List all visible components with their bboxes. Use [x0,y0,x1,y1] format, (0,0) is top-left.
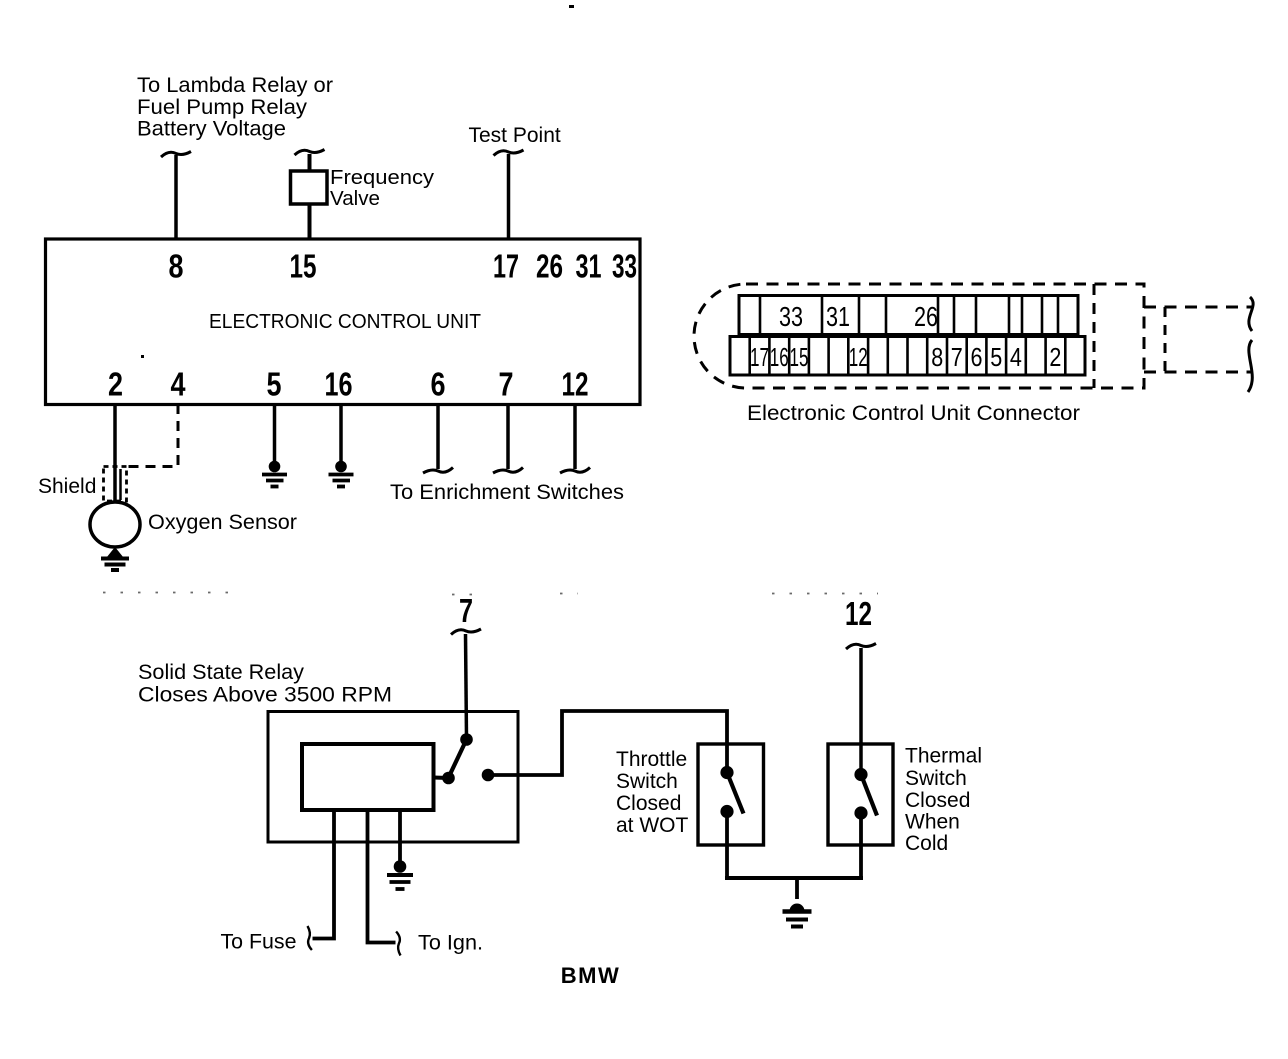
ground oxygen sensor [101,547,129,570]
svg-text:Oxygen Sensor: Oxygen Sensor [148,511,297,534]
svg-text:33: 33 [779,301,803,332]
svg-text:To Lambda Relay or: To Lambda Relay or [137,74,333,97]
relay switch stub [434,776,449,781]
svg-text:31: 31 [576,248,602,285]
ground bottom [783,904,812,927]
wire node 7 to relay switch [466,634,467,738]
junction dot relay output contact [482,769,495,782]
junction dot relay left contact [442,772,455,785]
svg-text:Closed: Closed [616,792,681,815]
label Thermal Switch Closed When Cold [905,745,982,856]
wire pin 7 [506,404,510,469]
wire relay coil to ignition [368,810,396,943]
svg-text:Thermal: Thermal [905,745,982,768]
wire frequency valve top [308,154,312,171]
svg-text:at WOT: at WOT [616,814,689,837]
svg-text:16: 16 [325,366,353,403]
frequency valve FV1 [291,171,328,204]
svg-text:16: 16 [770,342,789,372]
shield inner conductor [119,469,122,500]
speck top [569,5,574,8]
svg-text:15: 15 [790,342,809,372]
connector curl to fuse [308,926,312,950]
ground pin 16 [329,461,354,487]
throttle switch S1 box [698,744,764,845]
connector curl pin 7 [493,468,523,474]
svg-text:2: 2 [108,366,123,403]
connector curl pin 12 [560,468,590,474]
wire ground bus [725,876,863,880]
svg-text:4: 4 [171,366,187,403]
ground pin 5 [262,461,287,487]
svg-text:Test Point: Test Point [469,124,561,147]
svg-text:ELECTRONIC CONTROL UNIT: ELECTRONIC CONTROL UNIT [209,311,481,333]
label Solid State Relay Closes Above 3500 RPM [138,661,392,707]
svg-text:Shield: Shield [38,475,96,498]
connector curl pin 15 [295,150,325,156]
svg-text:When: When [905,811,960,834]
cable dashed divider [1164,307,1167,372]
throttle switch bottom contact [720,805,733,818]
svg-text:6: 6 [971,342,983,372]
wire relay output to throttle switch [493,711,727,775]
svg-text:Frequency: Frequency [330,167,434,189]
svg-text:33: 33 [612,248,637,285]
connector top pin row [739,296,1078,335]
svg-text:7: 7 [499,366,514,403]
wire thermal switch to ground bus [859,813,863,878]
svg-text:7: 7 [459,592,473,629]
ground relay [387,860,413,889]
svg-text:6: 6 [431,366,446,403]
faint dotted separator [103,593,878,595]
connector curl pin 6 [423,468,453,474]
wire pin 8 to battery voltage [174,155,178,239]
relay coil inner box [302,744,434,810]
svg-text:To Fuse: To Fuse [221,931,297,954]
cable break squiggle lower [1248,340,1252,392]
svg-text:Cold: Cold [905,832,948,855]
svg-text:8: 8 [169,248,184,285]
solid state relay K1 outer box [268,712,518,843]
svg-text:Throttle: Throttle [616,748,687,771]
relay switch blade [449,740,467,778]
label To Lambda Relay / Fuel Pump Relay / Battery Voltage [137,74,333,141]
svg-text:Battery Voltage: Battery Voltage [137,118,286,141]
speck left of pin 4 [141,355,144,358]
svg-text:Closed: Closed [905,789,970,812]
ECU connector inner dashed divider [1093,284,1096,388]
svg-text:Switch: Switch [616,770,678,793]
svg-text:4: 4 [1010,342,1022,372]
svg-text:5: 5 [267,366,282,403]
label Frequency Valve [330,167,434,210]
svg-text:Electronic Control Unit Connec: Electronic Control Unit Connector [747,401,1080,425]
wire relay coil to ground [398,810,402,861]
connector curl pin 8 [161,152,191,158]
wire ground stem [795,878,799,899]
svg-text:7: 7 [951,342,963,372]
svg-text:2: 2 [1049,342,1061,372]
wire pin 2 to oxygen sensor [113,404,117,502]
svg-text:17: 17 [750,342,769,372]
svg-text:Solid State Relay: Solid State Relay [138,661,305,684]
wire pin 12 [573,404,577,469]
connector curl to ignition [396,932,400,956]
wire throttle switch to ground bus [725,812,729,879]
connector curl pin 17 [494,150,524,156]
svg-text:31: 31 [826,301,850,332]
ECU connector dashed outline [694,284,1144,388]
svg-text:To Ign.: To Ign. [418,932,483,955]
shield dashed box [104,467,127,502]
throttle switch top contact [720,766,733,779]
svg-text:5: 5 [990,342,1002,372]
svg-text:Switch: Switch [905,767,967,790]
svg-text:26: 26 [914,301,938,332]
throttle switch blade [727,773,744,814]
ECU box U1 [46,239,641,405]
oxygen sensor B1 [90,502,140,547]
svg-text:To Enrichment Switches: To Enrichment Switches [390,481,624,504]
wire pin 4 dashed to shield [127,404,179,467]
connector curl node 12 [846,644,876,650]
svg-text:12: 12 [562,366,589,403]
svg-text:Closes Above 3500 RPM: Closes Above 3500 RPM [138,684,392,707]
connector bottom pin row [730,337,1085,376]
connector curl node 7 [451,629,481,635]
thermal switch blade [861,775,877,816]
wire pin 5 [273,404,277,463]
svg-text:15: 15 [290,248,317,285]
wire frequency valve to pin 15 [308,204,312,239]
thermal switch bottom contact [854,806,867,819]
svg-text:Fuel Pump Relay: Fuel Pump Relay [137,96,308,119]
svg-text:17: 17 [493,248,519,285]
svg-text:BMW: BMW [561,963,620,988]
svg-text:26: 26 [536,248,563,285]
svg-text:12: 12 [845,595,872,632]
ECU connector cable dashed box [1144,307,1252,372]
wire pin 6 [436,404,440,469]
svg-text:8: 8 [931,342,943,372]
label Throttle Switch Closed at WOT [616,748,689,837]
wire relay coil to fuse [313,810,335,939]
thermal switch S2 box [828,744,893,845]
junction dot relay top contact [460,733,473,746]
wire node 12 to thermal switch [859,648,863,769]
wire pin 17 test point [507,154,511,239]
wire pin 16 [339,404,343,463]
svg-text:12: 12 [849,342,868,372]
thermal switch top contact [854,768,867,781]
cable break squiggle upper [1249,297,1253,331]
svg-text:Valve: Valve [330,188,380,210]
